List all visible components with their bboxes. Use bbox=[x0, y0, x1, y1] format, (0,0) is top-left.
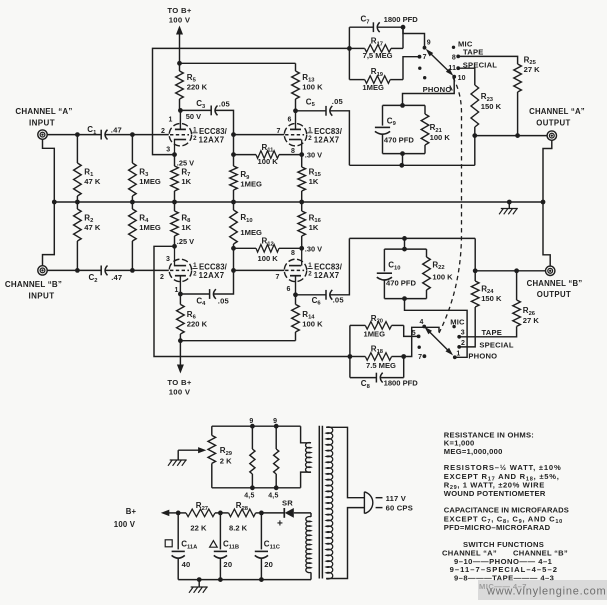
svg-text:.30 V: .30 V bbox=[305, 245, 322, 254]
contact 3 bbox=[457, 330, 465, 339]
node cathode A2 bbox=[299, 152, 304, 157]
node plate B2 bbox=[293, 292, 298, 297]
svg-text:12AX7: 12AX7 bbox=[314, 271, 340, 280]
svg-text:.47: .47 bbox=[111, 273, 122, 282]
wire net B left bbox=[349, 325, 351, 377]
contact 7B bbox=[418, 354, 426, 361]
node feedback A net bbox=[347, 46, 352, 51]
node B+ rail B bbox=[178, 338, 183, 343]
wire heater winding bottom lead bbox=[301, 472, 311, 488]
node rail gnd bbox=[197, 577, 202, 582]
contact 2 bbox=[457, 340, 465, 349]
svg-text:R18: R18 bbox=[371, 344, 384, 355]
resistor R12 bbox=[234, 237, 302, 264]
svg-text:1: 1 bbox=[456, 350, 460, 357]
label SPECIAL A bbox=[463, 60, 497, 69]
svg-text:C2: C2 bbox=[89, 273, 98, 284]
capacitor C4 bbox=[180, 270, 233, 307]
svg-text:40: 40 bbox=[182, 560, 191, 569]
node net B right bbox=[401, 354, 406, 359]
svg-text:R11: R11 bbox=[262, 143, 275, 154]
tube V2A (1/2 ECC83/12AX7) bbox=[169, 246, 227, 294]
wire C6 to output bbox=[349, 238, 475, 270]
svg-text:100 K: 100 K bbox=[258, 254, 279, 263]
svg-text:R22: R22 bbox=[432, 260, 444, 271]
svg-text:1K: 1K bbox=[309, 177, 319, 186]
svg-text:C9: C9 bbox=[387, 116, 397, 127]
svg-text:www.vinylengine.com: www.vinylengine.com bbox=[486, 585, 606, 597]
resistor R17 bbox=[349, 27, 403, 60]
node R12 left bbox=[231, 246, 236, 251]
wire R20 to contact 5 bbox=[404, 325, 419, 336]
svg-text:1MEG: 1MEG bbox=[139, 177, 161, 186]
wire phono A bbox=[403, 77, 455, 106]
contact 11 bbox=[448, 65, 460, 72]
svg-text:7.5 MEG: 7.5 MEG bbox=[366, 361, 396, 370]
jack J1 channel A input bbox=[38, 130, 47, 139]
svg-text:C6: C6 bbox=[312, 296, 322, 307]
power B+ arrow (bottom) bbox=[177, 341, 184, 374]
node input A bbox=[75, 132, 80, 137]
node bus out bbox=[541, 200, 546, 205]
svg-text:R20: R20 bbox=[371, 314, 383, 325]
resistor R19 bbox=[349, 67, 403, 92]
svg-text:12AX7: 12AX7 bbox=[199, 136, 225, 145]
svg-text:2 K: 2 K bbox=[220, 457, 232, 466]
svg-text:47 K: 47 K bbox=[84, 223, 101, 232]
svg-text:4: 4 bbox=[419, 319, 423, 326]
node output B bbox=[473, 268, 478, 273]
contact 1 bbox=[453, 350, 461, 359]
contact spare B bbox=[418, 346, 421, 349]
svg-text:MIC: MIC bbox=[450, 318, 465, 327]
svg-text:470 PFD: 470 PFD bbox=[386, 278, 416, 287]
svg-text:R28: R28 bbox=[236, 501, 249, 512]
svg-text:6: 6 bbox=[287, 286, 291, 293]
svg-text:100 K: 100 K bbox=[432, 272, 453, 281]
svg-text:9: 9 bbox=[249, 418, 253, 425]
node box B top bbox=[402, 247, 407, 252]
svg-text:R17: R17 bbox=[371, 37, 383, 48]
svg-text:C4: C4 bbox=[196, 296, 206, 307]
capacitor C10 bbox=[377, 249, 417, 299]
svg-text:2: 2 bbox=[193, 135, 197, 142]
pin 2 label V1A bbox=[161, 128, 165, 135]
node rail C11C bbox=[259, 577, 264, 582]
Channel B output label bbox=[527, 279, 583, 299]
wire R19 to contact 7 bbox=[403, 57, 420, 80]
pin 2 label V2A bbox=[160, 274, 164, 281]
svg-text:27 K: 27 K bbox=[524, 65, 541, 74]
resistor R25 bbox=[514, 55, 540, 135]
capacitor C11B bbox=[210, 513, 240, 580]
wire SPECIAL A bbox=[458, 68, 475, 74]
svg-text:3: 3 bbox=[166, 146, 170, 153]
svg-text:7: 7 bbox=[277, 128, 281, 135]
svg-text:7,5 MEG: 7,5 MEG bbox=[363, 51, 393, 60]
pin 6 label V2B bbox=[287, 286, 291, 293]
svg-text:7: 7 bbox=[418, 354, 422, 361]
resistor R3 bbox=[129, 135, 161, 202]
svg-text:CAPACITANCE IN MICROFARADS: CAPACITANCE IN MICROFARADS bbox=[444, 506, 569, 515]
svg-text:INPUT: INPUT bbox=[29, 292, 55, 301]
node B+ C11A bbox=[176, 511, 181, 516]
wire grid B2 bbox=[234, 269, 285, 271]
wire input B bbox=[47, 269, 77, 271]
svg-text:1K: 1K bbox=[181, 223, 191, 232]
node cathode B2 bbox=[299, 246, 304, 251]
resistor R16 bbox=[298, 202, 322, 248]
svg-text:TAPE: TAPE bbox=[482, 328, 503, 337]
svg-text:.25 V: .25 V bbox=[177, 159, 194, 168]
svg-text:ECC83/: ECC83/ bbox=[314, 127, 343, 136]
svg-text:1MEG: 1MEG bbox=[362, 83, 384, 92]
wire box B bottom bbox=[384, 298, 426, 300]
node grid B2 bbox=[231, 268, 236, 273]
wire jack B out ground bbox=[543, 202, 550, 266]
switch gang dashed link bbox=[439, 78, 462, 334]
pin 8 label V2B bbox=[291, 250, 295, 257]
switch arm S1B bbox=[424, 327, 453, 356]
svg-text:OUTPUT: OUTPUT bbox=[536, 118, 570, 127]
contact 9 bbox=[423, 39, 431, 49]
wire C7 to contact 9 bbox=[403, 27, 425, 48]
capacitor C2 bbox=[77, 266, 132, 284]
node bus R9 bbox=[231, 200, 236, 205]
resistor R29 (hum pot) bbox=[208, 426, 233, 488]
svg-text:8: 8 bbox=[452, 54, 456, 61]
notes switch functions bbox=[442, 540, 568, 591]
svg-text:12AX7: 12AX7 bbox=[199, 271, 225, 280]
resistor R26 bbox=[513, 271, 540, 331]
svg-text:2: 2 bbox=[161, 128, 165, 135]
svg-text:TO B+: TO B+ bbox=[167, 378, 191, 387]
wire feedback B bbox=[154, 246, 350, 356]
tube V1A (1/2 ECC83/12AX7) bbox=[169, 110, 227, 154]
node phono B top bbox=[402, 236, 407, 241]
wire C5 to output bbox=[349, 136, 474, 166]
wire box A stub bbox=[402, 154, 404, 166]
svg-text:20: 20 bbox=[264, 560, 273, 569]
resistor R28 bbox=[220, 501, 261, 532]
svg-text:2: 2 bbox=[193, 271, 197, 278]
wire TAPE A bbox=[458, 56, 517, 62]
svg-text:.05: .05 bbox=[333, 295, 345, 304]
svg-text:CHANNEL “A”: CHANNEL “A” bbox=[529, 107, 585, 116]
svg-text:10: 10 bbox=[458, 75, 466, 82]
svg-text:22 K: 22 K bbox=[190, 523, 207, 532]
svg-text:100 V: 100 V bbox=[169, 15, 191, 24]
contact 7 bbox=[418, 54, 427, 61]
ground symbol bus bbox=[499, 202, 518, 214]
svg-text:R19: R19 bbox=[371, 67, 384, 78]
capacitor C3 bbox=[180, 99, 233, 134]
wire SR to winding bbox=[294, 512, 311, 514]
svg-text:1: 1 bbox=[175, 287, 179, 294]
node bus R15 bbox=[299, 200, 304, 205]
svg-text:1: 1 bbox=[169, 117, 173, 124]
ground symbol supply bbox=[189, 580, 208, 593]
label .25V A bbox=[177, 159, 194, 168]
label 50V bbox=[186, 112, 201, 121]
power B+ arrow (top) bbox=[176, 26, 183, 64]
node rail C11B bbox=[218, 577, 223, 582]
svg-text:B+: B+ bbox=[126, 507, 137, 516]
node plate A1 bbox=[178, 108, 183, 113]
node bus in bbox=[52, 200, 57, 205]
svg-text:9: 9 bbox=[427, 39, 431, 46]
svg-text:47 K: 47 K bbox=[84, 177, 101, 186]
capacitor C8 bbox=[350, 357, 418, 391]
contact 4 bbox=[419, 319, 426, 328]
label .30V A bbox=[305, 151, 322, 160]
svg-text:R12: R12 bbox=[262, 237, 274, 248]
node grid A1 bbox=[130, 132, 135, 137]
wire filter ground rail bbox=[178, 579, 311, 581]
power B+ label (bottom) bbox=[167, 378, 191, 396]
wire heater rail top bbox=[212, 425, 301, 427]
svg-text:6: 6 bbox=[288, 117, 292, 124]
pin 1 label V2A bbox=[175, 287, 179, 294]
node plate B1 bbox=[178, 292, 183, 297]
svg-text:TAPE: TAPE bbox=[463, 48, 484, 57]
node box B bottom bbox=[402, 296, 407, 301]
svg-text:7: 7 bbox=[276, 274, 280, 281]
contact spare A1 bbox=[418, 67, 421, 70]
svg-text:5: 5 bbox=[412, 330, 416, 337]
wire output B bbox=[475, 270, 545, 272]
wire jack A out ground bbox=[543, 140, 552, 202]
svg-text:C11C: C11C bbox=[264, 540, 281, 551]
pin 1 label V1A bbox=[169, 117, 173, 124]
wire B+ rail B bbox=[180, 340, 296, 342]
power B+ arrow (supply) bbox=[161, 510, 178, 516]
contact 8 bbox=[452, 54, 460, 61]
jack J3 channel B input bbox=[38, 266, 47, 275]
pin 8 label V1B bbox=[291, 148, 295, 155]
node box A bottom bbox=[400, 151, 405, 156]
node R25 output A bbox=[515, 133, 520, 138]
label PHONO A bbox=[423, 85, 453, 94]
resistor R21 bbox=[421, 105, 450, 153]
node feedback B net bbox=[348, 354, 353, 359]
contact spare A2 bbox=[423, 76, 426, 79]
svg-text:+: + bbox=[277, 519, 283, 530]
svg-text:.05: .05 bbox=[219, 99, 231, 108]
label B+ 100V (supply) bbox=[114, 507, 137, 529]
resistor R2 bbox=[74, 202, 101, 270]
svg-text:2: 2 bbox=[461, 340, 465, 347]
wire output A bbox=[475, 135, 547, 137]
svg-text:27 K: 27 K bbox=[523, 316, 540, 325]
jack J2 channel A output bbox=[547, 131, 556, 140]
svg-text:C8: C8 bbox=[361, 379, 371, 390]
svg-text:WOUND POTENTIOMETER: WOUND POTENTIOMETER bbox=[444, 489, 546, 498]
svg-text:SR: SR bbox=[282, 499, 293, 508]
resistor R13 bbox=[292, 63, 323, 111]
svg-text:2: 2 bbox=[308, 135, 312, 142]
wire feedback A bbox=[153, 48, 350, 154]
svg-text:CHANNEL “B”: CHANNEL “B” bbox=[5, 280, 62, 289]
svg-text:9: 9 bbox=[273, 418, 277, 425]
svg-text:1MEG: 1MEG bbox=[364, 330, 386, 339]
svg-text:ECC83/: ECC83/ bbox=[314, 263, 343, 272]
svg-text:R27: R27 bbox=[196, 501, 208, 512]
Channel A output label bbox=[529, 107, 585, 127]
svg-text:50 V: 50 V bbox=[186, 112, 201, 121]
svg-text:PHONO: PHONO bbox=[468, 351, 497, 360]
pin 3 label V2A bbox=[166, 256, 170, 263]
wire grid A1 bbox=[132, 134, 168, 136]
svg-text:8: 8 bbox=[291, 148, 295, 155]
wire phono B bbox=[405, 299, 468, 358]
svg-text:R29: R29 bbox=[220, 446, 233, 457]
resistor R22 bbox=[423, 249, 453, 299]
svg-text:R10: R10 bbox=[240, 213, 252, 224]
node cathode B1 bbox=[172, 244, 177, 249]
svg-text:ECC83/: ECC83/ bbox=[199, 263, 228, 272]
wire SPECIAL B bbox=[459, 341, 475, 347]
svg-text:100 K: 100 K bbox=[302, 320, 323, 329]
wire net B to contact 4 bbox=[404, 327, 439, 356]
svg-text:1800 PFD: 1800 PFD bbox=[384, 378, 419, 387]
node plate A2 bbox=[293, 108, 298, 113]
svg-text:7: 7 bbox=[423, 54, 427, 61]
svg-text:1K: 1K bbox=[181, 177, 191, 186]
switch arm S1A bbox=[426, 49, 454, 76]
wire input A bbox=[47, 134, 77, 136]
svg-text:100 K: 100 K bbox=[302, 83, 323, 92]
svg-text:CHANNEL “B”: CHANNEL “B” bbox=[527, 279, 583, 288]
svg-text:CHANNEL “A”: CHANNEL “A” bbox=[15, 107, 72, 116]
node B+ rail A bbox=[177, 61, 182, 66]
tube V2B (1/2 ECC83/12AX7) bbox=[284, 248, 342, 294]
svg-text:220 K: 220 K bbox=[187, 83, 208, 92]
svg-text:.47: .47 bbox=[111, 126, 122, 135]
svg-text:PFD=MICRO–MICROFARAD: PFD=MICRO–MICROFARAD bbox=[444, 523, 551, 532]
contact MIC A bbox=[452, 40, 473, 49]
contact 10 bbox=[452, 75, 465, 82]
svg-text:PHONO: PHONO bbox=[423, 85, 452, 94]
wire net A left bbox=[348, 27, 350, 79]
svg-text:C10: C10 bbox=[388, 261, 400, 272]
notes resistance/capacitance bbox=[444, 430, 569, 532]
tube V1B (1/2 ECC83/12AX7) bbox=[284, 111, 342, 155]
svg-text:C11B: C11B bbox=[223, 540, 239, 551]
label SPECIAL B bbox=[479, 341, 513, 350]
node box A top bbox=[400, 103, 405, 108]
pin 6 label V1B bbox=[288, 117, 292, 124]
transformer T1 HV winding bbox=[306, 513, 311, 580]
svg-text:TO B+: TO B+ bbox=[167, 6, 191, 15]
capacitor C11C bbox=[255, 513, 281, 580]
label 117V 60CPS bbox=[386, 494, 413, 513]
capacitor C11A bbox=[165, 513, 198, 580]
svg-text:4,5: 4,5 bbox=[244, 492, 254, 499]
label PHONO B bbox=[468, 351, 497, 360]
node bus R7 bbox=[172, 200, 177, 205]
svg-text:1MEG: 1MEG bbox=[240, 180, 262, 189]
Channel A input label bbox=[15, 107, 72, 127]
resistor R4 bbox=[129, 202, 161, 270]
resistor R10 bbox=[230, 202, 262, 270]
svg-text:8: 8 bbox=[291, 250, 295, 257]
wire box A top bbox=[383, 104, 426, 106]
svg-text:1MEG: 1MEG bbox=[139, 223, 161, 232]
wire box A bottom bbox=[383, 153, 426, 155]
svg-text:100 K: 100 K bbox=[430, 133, 451, 142]
svg-text:3: 3 bbox=[166, 256, 170, 263]
wire jack B ground bbox=[43, 202, 55, 266]
svg-text:.25 V: .25 V bbox=[177, 237, 194, 246]
svg-text:OUTPUT: OUTPUT bbox=[537, 290, 571, 299]
node input B bbox=[75, 268, 80, 273]
svg-text:.05: .05 bbox=[332, 97, 344, 106]
resistor R27 bbox=[178, 501, 220, 532]
svg-text:2: 2 bbox=[308, 271, 312, 278]
svg-text:.30 V: .30 V bbox=[305, 151, 322, 160]
svg-text:C7: C7 bbox=[361, 15, 370, 26]
wire ground bus bbox=[54, 201, 543, 203]
svg-text:4,5: 4,5 bbox=[268, 492, 278, 499]
node cathode A1 bbox=[172, 152, 177, 157]
wire heater winding top lead bbox=[301, 426, 311, 443]
resistor R20 bbox=[350, 314, 404, 339]
wiper arrow R29 bbox=[178, 447, 206, 453]
power B+ label (top) bbox=[167, 6, 191, 24]
jack J4 channel B output bbox=[546, 266, 555, 275]
node output A bbox=[472, 133, 477, 138]
node R27 R28 bbox=[218, 511, 223, 516]
label .25V B bbox=[177, 237, 194, 246]
node R26 output B bbox=[514, 268, 519, 273]
svg-text:1800 PFD: 1800 PFD bbox=[384, 15, 419, 24]
node grid A2 bbox=[231, 132, 236, 137]
svg-text:INPUT: INPUT bbox=[29, 119, 55, 128]
svg-text:SPECIAL: SPECIAL bbox=[479, 341, 513, 350]
svg-text:100 V: 100 V bbox=[169, 387, 191, 396]
resistor R14 bbox=[292, 295, 323, 341]
wire B+ rail A bbox=[180, 62, 296, 64]
svg-text:2: 2 bbox=[160, 274, 164, 281]
svg-text:ECC83/: ECC83/ bbox=[199, 127, 228, 136]
svg-text:100 K: 100 K bbox=[258, 157, 279, 166]
heater V1 (pins 9/4,5) bbox=[244, 418, 255, 499]
Channel B input label bbox=[5, 280, 62, 300]
capacitor C6 bbox=[296, 238, 350, 306]
node C7 right bbox=[401, 25, 406, 30]
node grid B1 bbox=[130, 268, 135, 273]
node bus R3 bbox=[130, 200, 135, 205]
wire grid B1 bbox=[132, 269, 168, 271]
watermark bbox=[478, 580, 607, 600]
resistor R6 bbox=[177, 294, 208, 341]
pin 7 label V1B bbox=[277, 128, 281, 135]
svg-text:C11A: C11A bbox=[181, 540, 198, 551]
svg-text:.05: .05 bbox=[218, 296, 230, 305]
wire primary bottom lead bbox=[326, 508, 364, 579]
resistor R5 bbox=[176, 63, 208, 110]
svg-text:1K: 1K bbox=[309, 223, 319, 232]
transformer T1 core bbox=[319, 426, 322, 579]
wire grid A2 bbox=[234, 134, 285, 136]
capacitor C9 bbox=[375, 105, 414, 153]
label TAPE A bbox=[463, 48, 484, 57]
resistor R23 bbox=[471, 74, 502, 136]
node R11 left bbox=[231, 152, 236, 157]
node bus gnd bbox=[507, 200, 512, 205]
svg-text:117 V: 117 V bbox=[386, 494, 407, 503]
